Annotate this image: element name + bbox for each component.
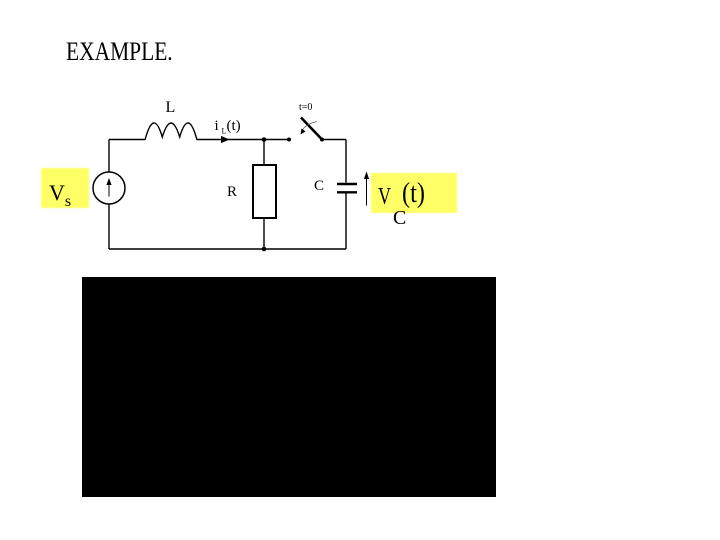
wire top-left horizontal (source to inductor) bbox=[109, 139, 145, 141]
svg-text:C: C bbox=[314, 178, 324, 194]
wire capacitor upper stub bbox=[345, 140, 347, 183]
wire switch to capacitor corner bbox=[322, 139, 346, 141]
source VS circle bbox=[93, 172, 125, 204]
wire left vertical upper (source top) bbox=[108, 140, 110, 173]
wire inductor to switch contact bbox=[197, 139, 289, 141]
switch blade bbox=[301, 118, 322, 140]
svg-text:L: L bbox=[166, 99, 176, 116]
switch opening arc arrow bbox=[303, 122, 318, 131]
inductor L bbox=[145, 123, 197, 140]
svg-text:R: R bbox=[227, 184, 237, 200]
wire capacitor lower stub bbox=[345, 194, 347, 250]
title EXAMPLE. bbox=[66, 37, 173, 67]
svg-text:(t): (t) bbox=[227, 118, 241, 134]
svg-text:t=0: t=0 bbox=[299, 102, 312, 113]
wire bottom horizontal bbox=[109, 248, 346, 250]
black rectangle block bbox=[82, 277, 496, 497]
switch left contact dot bbox=[287, 138, 291, 142]
node dot top (resistor junction) bbox=[262, 137, 267, 142]
highlight label Vs bbox=[41, 168, 89, 208]
svg-text:i: i bbox=[215, 118, 219, 134]
current arrow iL(t) bbox=[221, 136, 230, 143]
wire resistor top bbox=[263, 140, 265, 166]
vC arrow (voltage reference) bbox=[366, 177, 368, 206]
source arrow bbox=[108, 183, 110, 197]
switch right contact dot bbox=[320, 138, 324, 142]
wire resistor bottom bbox=[263, 218, 265, 249]
node dot bottom (resistor junction) bbox=[262, 247, 267, 252]
highlight label VC(t) bbox=[371, 173, 457, 213]
wire left vertical lower (source bottom) bbox=[108, 204, 110, 250]
capacitor C plates bbox=[337, 183, 357, 185]
resistor R body bbox=[253, 165, 276, 218]
